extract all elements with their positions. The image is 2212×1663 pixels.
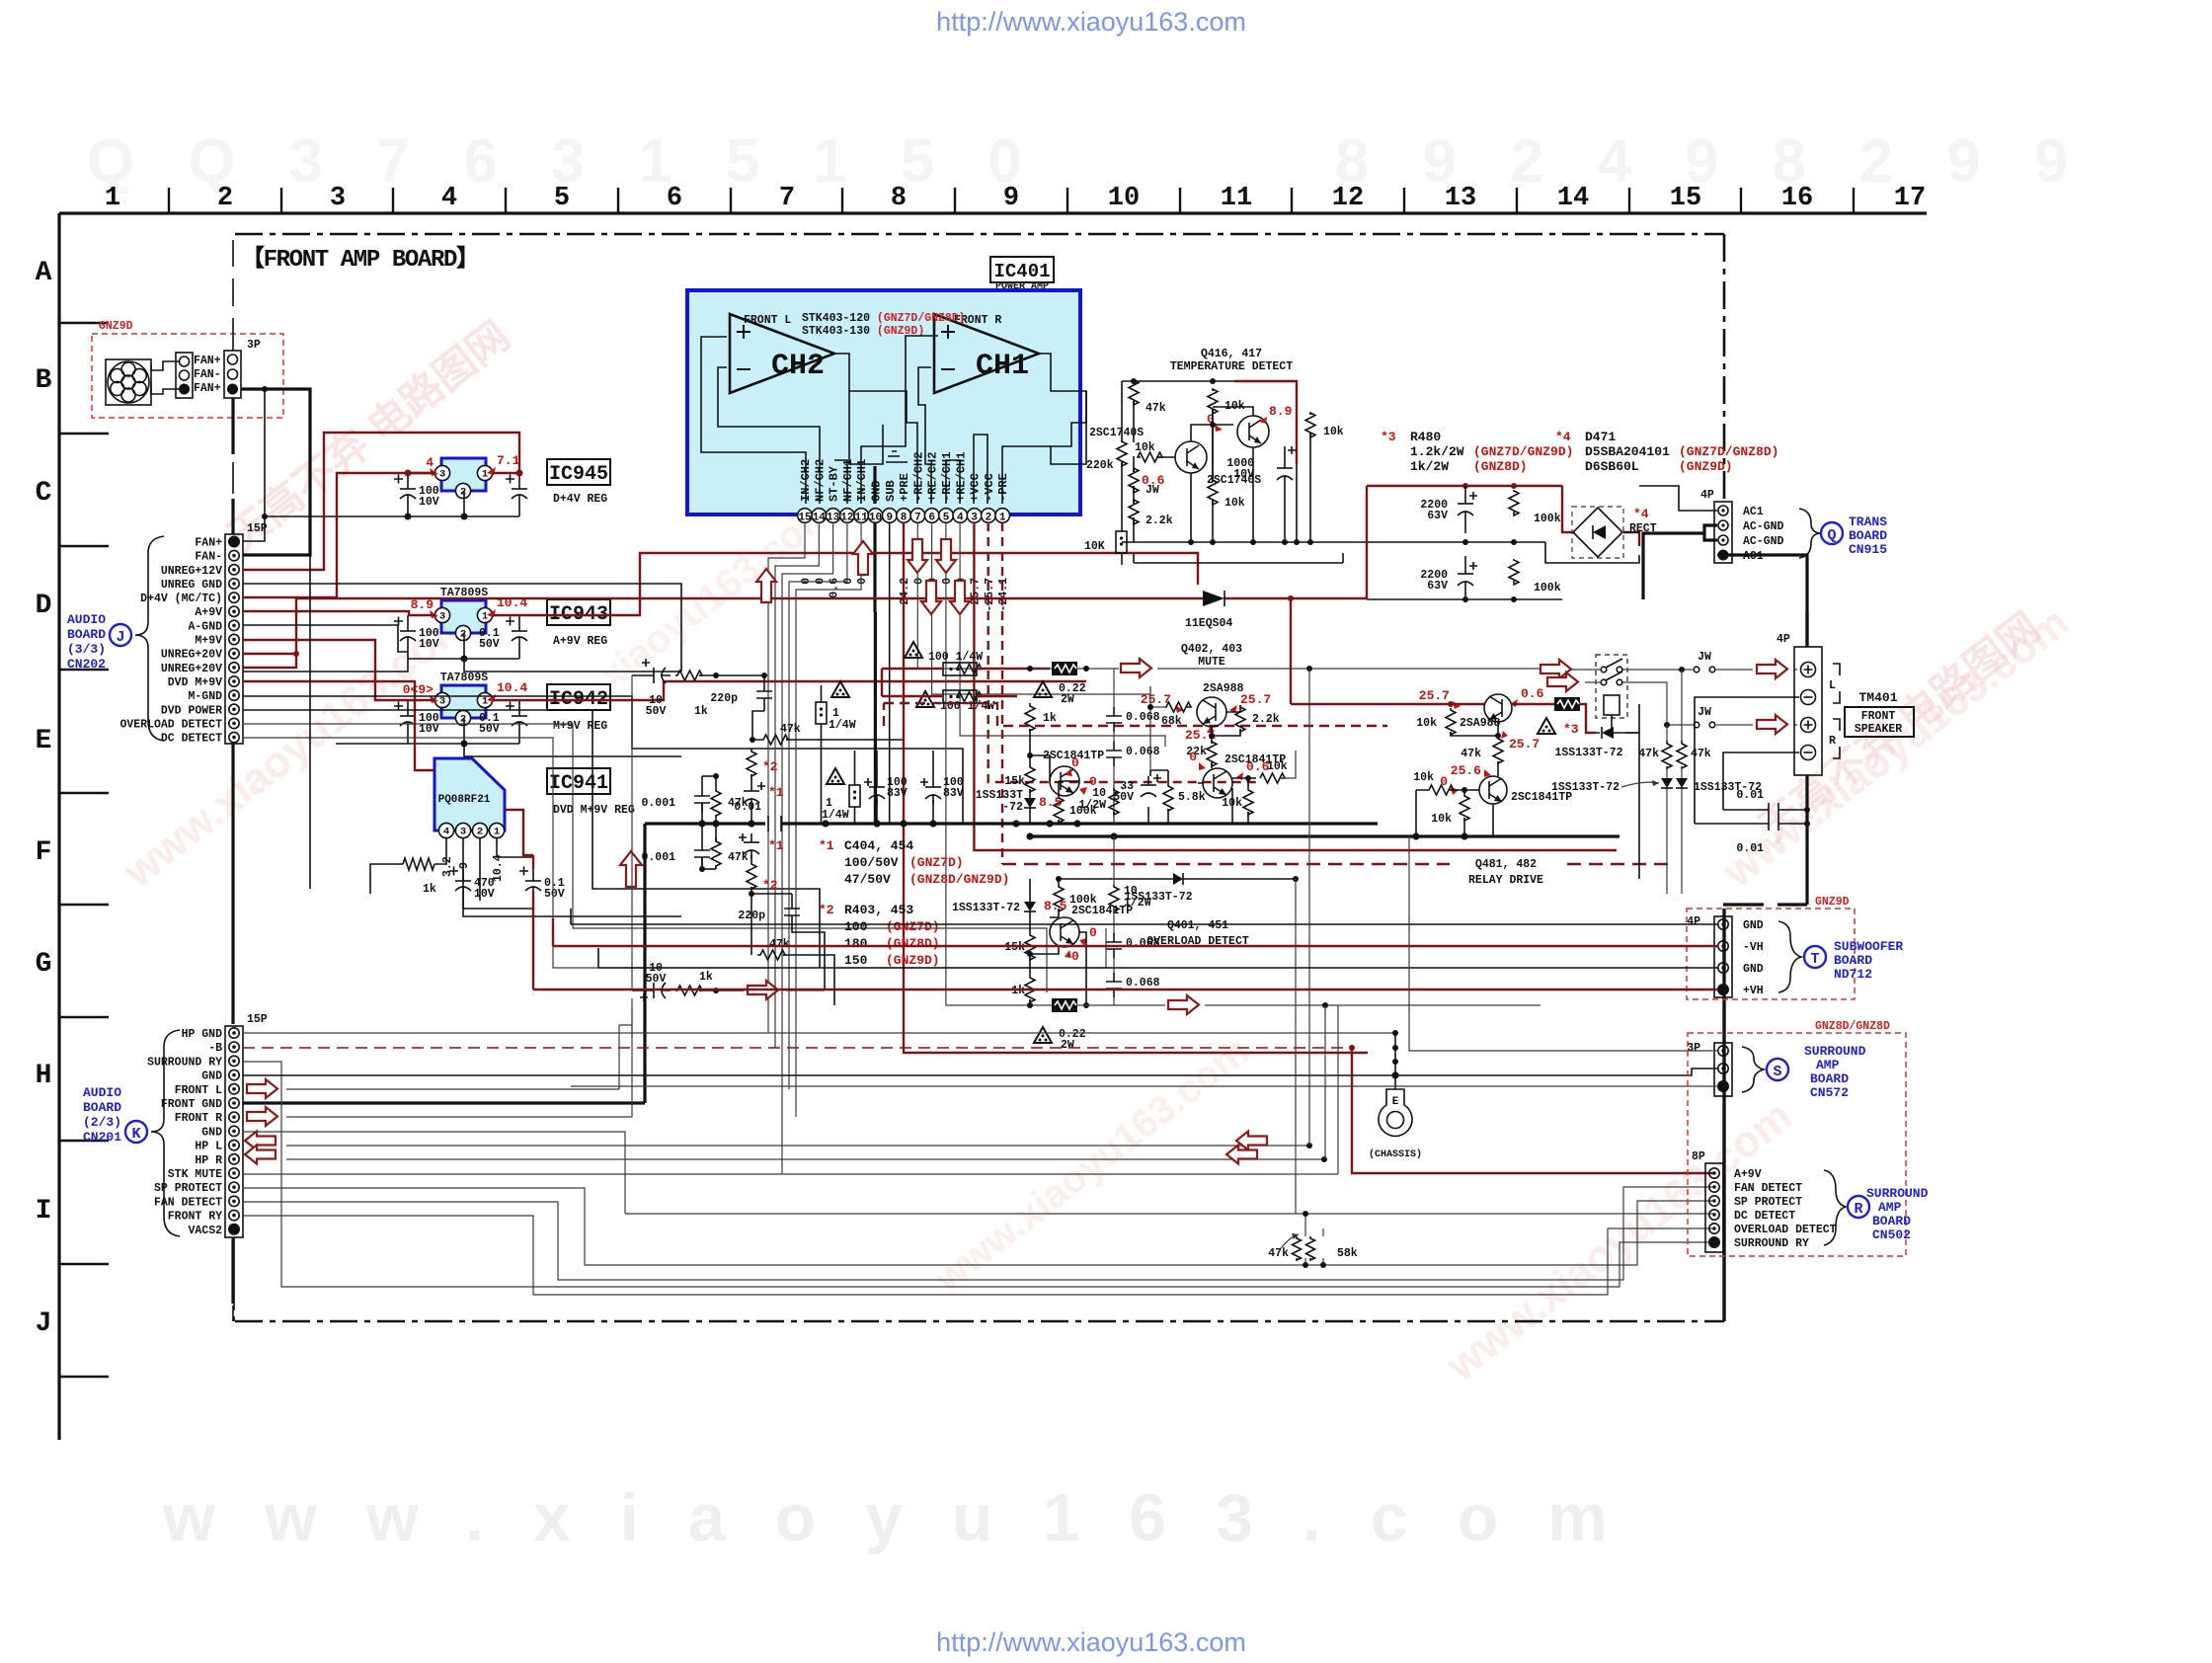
svg-text:0.6: 0.6 — [829, 578, 841, 598]
svg-text:12: 12 — [1332, 184, 1364, 213]
svg-text:47k: 47k — [1638, 748, 1659, 760]
svg-text:50V: 50V — [479, 723, 500, 736]
IC401 pin circles and labels — [798, 509, 1010, 524]
svg-text:3P: 3P — [1687, 1042, 1700, 1055]
resistor 47k q481 — [1493, 736, 1503, 763]
svg-text:3: 3 — [439, 611, 445, 623]
relay box — [1596, 655, 1627, 718]
svg-text:-24.1: -24.1 — [997, 578, 1010, 612]
connector CN201 15P (K) — [147, 1013, 268, 1237]
diode 1SS133T-72 vert overload — [1024, 902, 1036, 911]
IC942 label box — [547, 684, 610, 733]
resistor 58k — [1322, 1228, 1324, 1265]
relay drive red wire — [1291, 598, 1596, 733]
svg-text:10K: 10K — [1084, 540, 1105, 553]
svg-text:9: 9 — [1003, 184, 1019, 213]
svg-text:100: 100 — [844, 919, 868, 934]
svg-text:3: 3 — [439, 469, 445, 481]
IC401 pin voltage values (red, rotated) — [800, 578, 1010, 612]
svg-text:【FRONT AMP BOARD】: 【FRONT AMP BOARD】 — [241, 245, 480, 274]
subwoofer connector 4P — [1687, 915, 1732, 997]
svg-text:2: 2 — [217, 184, 233, 213]
resistor 15k overload — [1025, 933, 1035, 960]
svg-text:D+4V REG: D+4V REG — [553, 493, 607, 506]
capacitor C-IC945 right — [518, 473, 520, 516]
svg-text:*2: *2 — [819, 903, 834, 917]
capacitor 2200/63V upper — [1464, 486, 1466, 533]
svg-text:GNZ9D: GNZ9D — [99, 320, 133, 333]
wire pin5 down — [946, 522, 1030, 1005]
svg-text:10k: 10k — [1413, 771, 1434, 784]
svg-text:+RE/CH1: +RE/CH1 — [954, 452, 968, 502]
svg-text:IN/CH1: IN/CH1 — [855, 459, 869, 502]
fusible resistor 1/4W lower — [827, 768, 844, 784]
top gray rail w arrow — [1030, 668, 1540, 670]
svg-text:(GNZ8D): (GNZ8D) — [886, 936, 940, 951]
resistor 10k q416 lower — [1208, 480, 1218, 505]
wire pin6 down — [932, 522, 1150, 694]
wire pin1 -PRE red dashed down — [1001, 522, 1003, 864]
0.22 2W mark top — [1034, 681, 1052, 697]
svg-text:B: B — [36, 365, 52, 396]
wire IC945 out red — [408, 472, 519, 474]
svg-text:IC945: IC945 — [549, 463, 608, 486]
svg-text:-25.7: -25.7 — [984, 578, 996, 612]
svg-text:VACS2: VACS2 — [188, 1225, 222, 1237]
temp lower second rail — [1134, 553, 1343, 563]
wire FRONT RY — [243, 1216, 1714, 1295]
resistor 10k right — [1305, 413, 1315, 437]
wire pin12 drop — [789, 522, 847, 1089]
svg-text:M-GND: M-GND — [188, 690, 222, 703]
capacitor 0.1/50V IC941 — [532, 865, 534, 909]
svg-text:CN502: CN502 — [1872, 1227, 1911, 1242]
svg-text:*2: *2 — [762, 878, 778, 893]
wire pin7 down — [917, 522, 1030, 669]
svg-text:I: I — [36, 1196, 52, 1227]
svg-text:100k: 100k — [1534, 513, 1561, 525]
svg-text:3: 3 — [439, 696, 445, 708]
warning *3 — [1538, 718, 1555, 734]
svg-text:(CHASSIS): (CHASSIS) — [1369, 1148, 1422, 1160]
wire SP PROTECT — [243, 1188, 1714, 1265]
resistor 10 1/2W overload — [1113, 836, 1115, 885]
wire pin14 drop — [775, 522, 819, 1048]
surround S wires — [1409, 836, 1718, 1051]
wire pin13 drop — [782, 522, 833, 1174]
ruler line — [59, 211, 1927, 214]
resistor 1k mute — [1025, 703, 1035, 731]
caps 0.068 lower pair — [1113, 909, 1115, 1005]
svg-text:TEMPERATURE DETECT: TEMPERATURE DETECT — [1170, 360, 1293, 373]
wire VACS2 down — [233, 1237, 235, 1303]
svg-text:11: 11 — [1221, 184, 1252, 213]
IC942 ground rail — [336, 718, 681, 756]
svg-text:FRONT RY: FRONT RY — [168, 1211, 222, 1224]
note *4 D471 — [1555, 430, 1778, 474]
svg-text:CH2: CH2 — [771, 350, 825, 383]
svg-text:4: 4 — [441, 184, 457, 213]
capacitor 1000/10V temp — [1284, 454, 1286, 490]
svg-text:15P: 15P — [247, 522, 268, 535]
connector CN202 15P (J) — [119, 522, 267, 746]
wire UNREG+20V red loop — [243, 598, 296, 668]
svg-text:50V: 50V — [646, 973, 667, 986]
svg-text:FRONT L: FRONT L — [175, 1084, 222, 1097]
svg-text:24.2: 24.2 — [899, 578, 911, 605]
capacitor C-IC945 left 100/10V — [407, 473, 409, 516]
wire OVERLOAD DETECT — [243, 724, 1047, 992]
svg-text:50V: 50V — [544, 888, 565, 901]
svg-text:TM401: TM401 — [1858, 690, 1897, 705]
wire UNREG+20V red main run — [296, 597, 336, 599]
svg-text:10V: 10V — [474, 888, 495, 901]
relay drive title — [1450, 853, 1564, 887]
row letters — [36, 258, 52, 1339]
svg-text:JW: JW — [1698, 651, 1711, 664]
svg-text:47k: 47k — [769, 938, 790, 951]
bottom gray rail w arrow — [1030, 1004, 1540, 1006]
op-amp block IC401 — [687, 290, 1080, 515]
red wires fusible — [882, 669, 1050, 696]
svg-text:10: 10 — [869, 513, 882, 524]
svg-text:1/2W: 1/2W — [1124, 897, 1151, 910]
svg-text:http://www.xiaoyu163.com: http://www.xiaoyu163.com — [936, 1627, 1246, 1657]
temp bottom rail — [1122, 541, 1545, 543]
svg-text:A+9V: A+9V — [1734, 1168, 1762, 1181]
svg-text:BOARD: BOARD — [1872, 1214, 1911, 1228]
svg-text:GNZ8D/GNZ8D: GNZ8D/GNZ8D — [1815, 1020, 1890, 1033]
trans connector 4P — [1700, 489, 1732, 563]
svg-text:1: 1 — [105, 184, 120, 213]
svg-text:RELAY DRIVE: RELAY DRIVE — [1468, 874, 1543, 887]
svg-text:25.6: 25.6 — [1451, 763, 1481, 778]
svg-text:+VH: +VH — [1743, 985, 1764, 997]
svg-text:SPEAKER: SPEAKER — [1855, 723, 1902, 736]
svg-text:5: 5 — [554, 184, 570, 213]
thick black second bus — [1030, 834, 1619, 837]
svg-text:10: 10 — [1108, 184, 1140, 213]
svg-text:68k: 68k — [1161, 715, 1182, 728]
resistor 15k mute — [1025, 765, 1035, 792]
cap 220p lower — [791, 900, 793, 924]
ground squiggle — [886, 451, 908, 462]
svg-text:J: J — [36, 1308, 52, 1339]
svg-text:1k: 1k — [1011, 985, 1025, 997]
svg-text:2.2k: 2.2k — [1252, 713, 1280, 726]
transistor Q481 2SA988 — [1484, 694, 1512, 722]
trans board blue label — [1799, 509, 1820, 558]
svg-text:+PRE: +PRE — [898, 473, 911, 502]
svg-text:15P: 15P — [247, 1013, 268, 1026]
svg-text:FAN DETECT: FAN DETECT — [1734, 1182, 1802, 1195]
ruler ticks — [169, 188, 1854, 212]
svg-text:10k: 10k — [1267, 760, 1288, 773]
svg-text:13: 13 — [1445, 184, 1476, 213]
svg-text:UNREG GND: UNREG GND — [161, 579, 222, 592]
resistor 47k mid — [760, 735, 788, 745]
diode 1SS133T-72 horizontal — [1059, 878, 1296, 880]
svg-text:47k: 47k — [780, 723, 801, 736]
svg-text:3: 3 — [971, 513, 978, 524]
svg-text:58k: 58k — [1337, 1247, 1358, 1260]
svg-text:1SS133T-72: 1SS133T-72 — [952, 902, 1020, 914]
svg-text:220p: 220p — [710, 692, 738, 705]
fan wire labels — [194, 355, 221, 395]
verticals from above — [1296, 669, 1338, 1214]
svg-text:D6SB60L: D6SB60L — [1585, 459, 1639, 474]
speaker vertical wires — [1805, 612, 1808, 905]
input coupling cap 10/50V top — [632, 674, 671, 676]
L R labels — [1833, 664, 1840, 758]
wire 3P to bus — [241, 389, 310, 555]
resistor 2.2k — [1235, 705, 1245, 732]
svg-text:http://www.xiaoyu163.com: http://www.xiaoyu163.com — [936, 7, 1246, 37]
svg-text:(3/3): (3/3) — [67, 642, 106, 657]
svg-text:1SS133T-72: 1SS133T-72 — [1551, 781, 1619, 794]
svg-text:1: 1 — [482, 469, 488, 481]
svg-text:SURROUND RY: SURROUND RY — [1734, 1237, 1809, 1250]
svg-text:UNREG+20V: UNREG+20V — [161, 663, 222, 675]
svg-text:AC-GND: AC-GND — [1743, 520, 1784, 533]
svg-text:(GNZ7D/GNZ8D): (GNZ7D/GNZ8D) — [1679, 444, 1778, 459]
svg-text:10V: 10V — [419, 496, 439, 509]
svg-text:9: 9 — [458, 862, 471, 869]
svg-text:JW: JW — [1698, 706, 1711, 719]
cap *1 lower — [750, 833, 752, 859]
svg-text:GNZ9D: GNZ9D — [1815, 896, 1850, 909]
svg-text:10k: 10k — [1222, 797, 1242, 810]
svg-text:100k: 100k — [1534, 582, 1561, 594]
relay diode — [1596, 715, 1639, 733]
svg-text:CN202: CN202 — [67, 657, 106, 672]
svg-text:16: 16 — [1781, 184, 1813, 213]
svg-text:0: 0 — [941, 578, 954, 585]
IC945 label box — [547, 459, 610, 506]
47k pair — [1662, 741, 1672, 768]
temp detect wires — [1122, 381, 1310, 565]
TM401 pin4 wire — [1723, 752, 1799, 810]
wire FAN+ drop — [243, 389, 265, 541]
caps 0.068 upper pair — [1113, 669, 1115, 824]
svg-text:6: 6 — [928, 513, 935, 524]
wire pin11 drop — [796, 522, 861, 1117]
svg-text:1k: 1k — [699, 971, 713, 984]
svg-text:HP GND: HP GND — [182, 1028, 223, 1041]
svg-text:8.5: 8.5 — [1044, 899, 1067, 913]
surround S connector 3P — [1687, 1042, 1732, 1096]
svg-text:10k: 10k — [1416, 717, 1437, 730]
capacitor 2200/63V lower — [1464, 556, 1466, 599]
resistor 100k mute — [1054, 796, 1064, 823]
svg-text:4P: 4P — [1700, 489, 1714, 502]
resistor *2 upper — [747, 749, 756, 776]
resistor 2.2k temp — [1129, 500, 1139, 524]
svg-text:FAN-: FAN- — [194, 368, 221, 381]
svg-text:NF/CH1: NF/CH1 — [841, 459, 855, 502]
resistor 47k bottom — [757, 950, 785, 960]
svg-text:4P: 4P — [1687, 915, 1700, 928]
svg-text:BOARD: BOARD — [1810, 1071, 1849, 1086]
svg-text:D471: D471 — [1585, 430, 1616, 444]
wire DC DETECT — [243, 738, 1106, 968]
svg-text:BOARD: BOARD — [67, 627, 106, 642]
audio board J label — [67, 612, 131, 672]
svg-text:SURROUND RY: SURROUND RY — [147, 1056, 222, 1069]
svg-text:47k: 47k — [1461, 748, 1481, 760]
svg-text:Q402, 403: Q402, 403 — [1181, 643, 1242, 656]
svg-text:7: 7 — [779, 184, 795, 213]
svg-text:BOARD: BOARD — [1834, 953, 1872, 968]
svg-text:ND712: ND712 — [1834, 967, 1872, 982]
TM401 pin2 wire — [1695, 697, 1799, 824]
svg-text:A-GND: A-GND — [188, 620, 222, 633]
svg-text:T: T — [1810, 951, 1819, 968]
svg-text:A+9V: A+9V — [195, 606, 222, 619]
rect area red rail — [1367, 486, 1562, 598]
svg-text:K: K — [131, 1126, 140, 1143]
svg-text:6: 6 — [667, 184, 682, 213]
resistor 1k input top — [675, 671, 702, 680]
svg-text:*3: *3 — [1381, 430, 1396, 444]
svg-text:0: 0 — [1189, 750, 1197, 764]
resistor JW temp — [1129, 468, 1139, 493]
fan motor — [106, 359, 151, 405]
svg-text:AUDIO: AUDIO — [83, 1085, 121, 1100]
svg-text:83V: 83V — [887, 787, 908, 800]
arrows under IC401 pins — [908, 539, 927, 573]
svg-text:11: 11 — [855, 513, 869, 524]
svg-text:D5SBA204101: D5SBA204101 — [1585, 444, 1670, 459]
svg-text:SP PROTECT: SP PROTECT — [1734, 1196, 1802, 1209]
svg-text:10.4: 10.4 — [497, 680, 527, 695]
red dashed segs variant — [884, 703, 1387, 726]
svg-text:GND: GND — [1743, 919, 1764, 932]
svg-text:2W: 2W — [1061, 1039, 1074, 1052]
svg-text:MUTE: MUTE — [1198, 656, 1225, 669]
svg-text:50V: 50V — [646, 705, 667, 718]
wire FRONT R — [247, 1107, 277, 1126]
svg-text:IC941: IC941 — [549, 772, 608, 795]
IC945 ground rail — [265, 491, 519, 516]
voltage regulator IC941 PQ08RF21 — [434, 758, 505, 838]
svg-text:R480: R480 — [1410, 430, 1441, 444]
svg-text:-VH: -VH — [1743, 941, 1764, 954]
caps 0.01 pair — [1695, 810, 1807, 824]
voltage regulator IC945 — [441, 458, 486, 491]
svg-text:Q481, 482: Q481, 482 — [1475, 858, 1537, 871]
svg-text:*2: *2 — [762, 759, 778, 774]
svg-text:0: 0 — [1071, 755, 1079, 770]
svg-text:47k: 47k — [728, 851, 749, 864]
svg-text:AC1: AC1 — [1743, 506, 1764, 518]
ruler left border — [57, 213, 60, 1440]
svg-text:CN915: CN915 — [1849, 542, 1887, 557]
subwoofer wires — [571, 909, 1718, 924]
resistor 10K box temp — [1116, 531, 1127, 553]
red fusible 100 1/4W pair — [905, 642, 922, 658]
IC401 internal wires — [701, 336, 1086, 504]
svg-text:STK403-120 (GNZ7D/GNZ8D): STK403-120 (GNZ7D/GNZ8D) — [802, 312, 966, 325]
input cap 10/50V bottom — [632, 990, 671, 991]
svg-text:1SS133T-72: 1SS133T-72 — [1554, 747, 1622, 759]
svg-text:0: 0 — [1089, 925, 1097, 940]
note *3 R480 — [1381, 430, 1573, 474]
wire pin8 +PRE red down — [904, 522, 1368, 1053]
fusible resistor 1/4W upper — [831, 681, 849, 697]
wire pin10 GND thick down — [874, 612, 877, 824]
cap 0.01 on bus — [768, 816, 781, 831]
svg-text:15: 15 — [798, 513, 812, 524]
wire M-GND — [243, 696, 963, 824]
svg-text:FRONT R: FRONT R — [175, 1112, 222, 1125]
svg-text:3.2: 3.2 — [441, 856, 454, 877]
op-amp CH1 — [934, 314, 1039, 393]
svg-text:GND: GND — [870, 480, 884, 502]
wire DVD POWER — [243, 710, 820, 968]
svg-text:*4: *4 — [1633, 507, 1649, 521]
diode 1SS133T mute — [1024, 798, 1036, 808]
svg-text:+RE/CH2: +RE/CH2 — [926, 452, 940, 502]
svg-text:ST-BY: ST-BY — [828, 465, 841, 502]
svg-text:15: 15 — [1670, 184, 1701, 213]
wire STK MUTE — [243, 1173, 1338, 1175]
svg-text:(GNZ9D): (GNZ9D) — [1679, 459, 1733, 474]
svg-text:0.068: 0.068 — [1126, 977, 1160, 990]
svg-text:(GNZ9D): (GNZ9D) — [886, 953, 940, 968]
svg-text:-RE/CH2: -RE/CH2 — [911, 452, 925, 502]
svg-text:UNREG+12V: UNREG+12V — [161, 565, 222, 578]
audio board K label — [83, 1085, 147, 1145]
svg-text:FAN+: FAN+ — [194, 355, 221, 367]
resistor 220k temp — [1117, 441, 1127, 466]
bridge rectifier RECT — [1572, 507, 1657, 558]
svg-text:AMP: AMP — [1878, 1200, 1902, 1215]
wire pin4 down — [960, 522, 1165, 747]
svg-text:Q: Q — [1827, 527, 1836, 544]
svg-text:4: 4 — [957, 513, 964, 524]
svg-text:*1: *1 — [819, 838, 834, 853]
svg-text:150: 150 — [844, 953, 868, 968]
svg-text:UNREG+20V: UNREG+20V — [161, 649, 222, 662]
resistor 1k input bottom — [675, 986, 702, 995]
svg-text:47/50V: 47/50V — [844, 872, 891, 887]
svg-text:R: R — [1854, 1201, 1862, 1218]
svg-text:G: G — [36, 949, 52, 980]
svg-text:-B: -B — [208, 1042, 222, 1055]
connector 3P — [224, 339, 261, 398]
svg-text:BOARD: BOARD — [83, 1100, 121, 1115]
resistor *2 lower — [747, 861, 756, 889]
svg-text:8: 8 — [891, 184, 907, 213]
svg-text:L: L — [1829, 679, 1836, 692]
svg-text:4: 4 — [443, 827, 449, 838]
wire HP R — [245, 1146, 276, 1164]
border jog dash at 916 — [1723, 903, 1807, 906]
svg-text:0.001: 0.001 — [641, 851, 675, 864]
svg-text:D: D — [36, 591, 52, 621]
svg-text:180: 180 — [844, 936, 868, 951]
svg-text:M+9V REG: M+9V REG — [553, 720, 607, 733]
svg-text:7: 7 — [914, 513, 921, 524]
capacitor *1 upper — [750, 782, 752, 808]
caps 0.001 pair lower — [702, 824, 716, 869]
svg-text:0.01: 0.01 — [1736, 789, 1764, 802]
diode 11EQS04 — [1185, 591, 1232, 630]
resistor 100k lower — [1509, 560, 1519, 585]
svg-text:4: 4 — [426, 455, 434, 470]
diode pair 1SS133T-72 — [1661, 778, 1673, 788]
